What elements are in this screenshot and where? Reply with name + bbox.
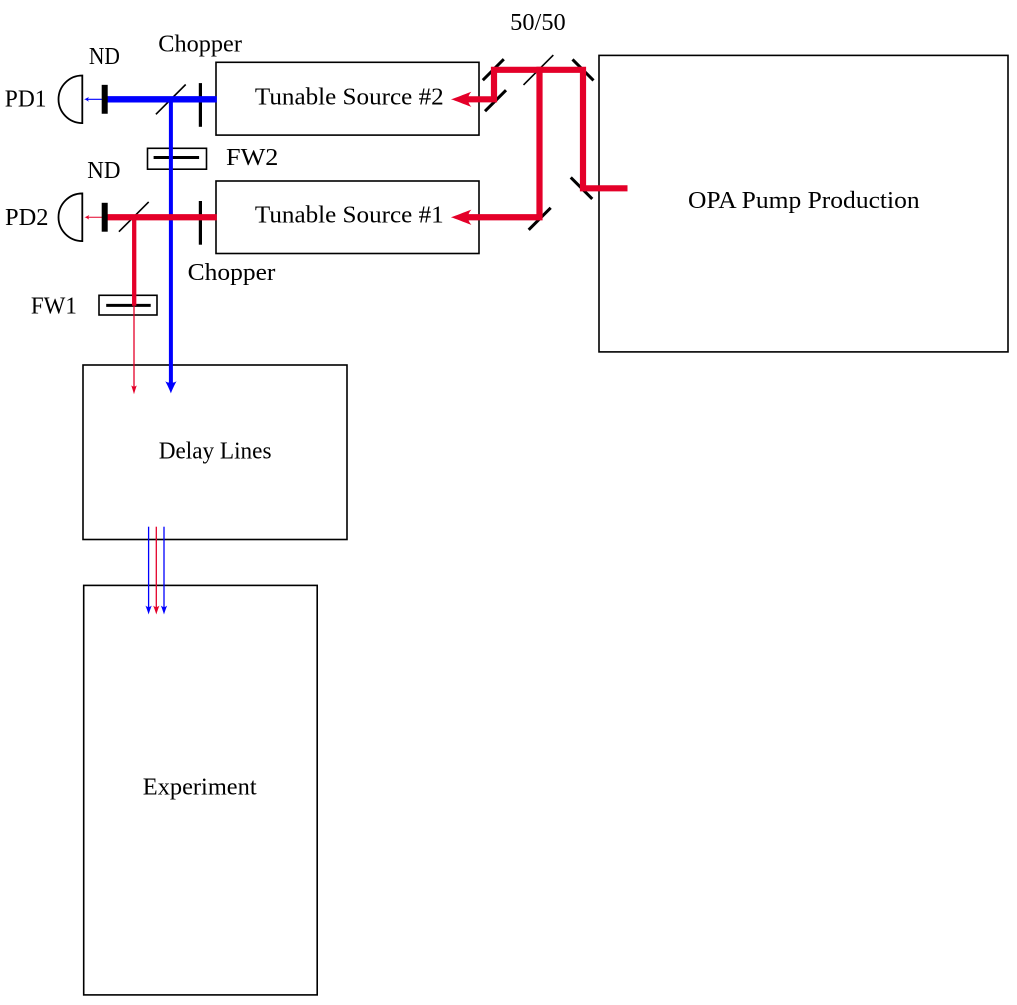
mirror M1 (top left, into beam down) (483, 59, 504, 80)
svg-text:Chopper: Chopper (158, 32, 242, 58)
thin blue line Delay->Experiment (right) (161, 527, 167, 615)
red arrowhead into Tunable Source #1 (451, 210, 472, 225)
mirror M2 (into Tunable Source #2) (485, 90, 506, 111)
blue arrowhead into Delay Lines (165, 381, 176, 393)
ND filter (bottom) (102, 203, 108, 232)
chopper wheel (bottom) (199, 201, 202, 245)
blue beam vertical (to Delay Lines) (169, 99, 173, 388)
red arrowhead into Tunable Source #2 (451, 92, 472, 107)
svg-text:Chopper: Chopper (188, 260, 276, 286)
red beam from OPA via mirrors (polyline) (467, 70, 628, 189)
svg-text:50/50: 50/50 (510, 10, 566, 36)
svg-text:ND: ND (87, 158, 120, 184)
filter wheel FW1 (99, 295, 157, 315)
thin red line below FW1 (133, 306, 135, 387)
photodiode PD1 (59, 76, 83, 124)
thin blue arrow into PD1 (84, 97, 105, 102)
beamsplitter (red arm) (119, 202, 149, 232)
mirror M3 (top right) (573, 59, 594, 80)
mirror M5 (into Tunable Source #1) (529, 208, 551, 230)
svg-text:Delay Lines: Delay Lines (159, 438, 272, 464)
mirror M4 (at OPA output) (571, 177, 593, 199)
red beam 50/50 branch to Tunable Source #1 (467, 67, 540, 218)
ND filter (top) (102, 85, 108, 114)
red beam vertical (to FW1) (132, 217, 136, 306)
svg-text:ND: ND (89, 44, 120, 70)
svg-text:Tunable Source #1: Tunable Source #1 (255, 203, 444, 229)
thin red arrow into PD2 (84, 215, 105, 220)
box Tunable Source #2 (216, 62, 479, 135)
svg-text:PD1: PD1 (5, 87, 47, 113)
svg-text:OPA Pump Production: OPA Pump Production (688, 188, 920, 214)
svg-text:Experiment: Experiment (143, 775, 257, 801)
thin red arrowhead into Delay Lines (131, 385, 137, 394)
svg-text:PD2: PD2 (5, 205, 49, 231)
red beam (Tunable Source #1 to ND) (105, 214, 217, 220)
box Tunable Source #1 (216, 181, 479, 254)
svg-text:FW2: FW2 (226, 145, 278, 171)
svg-text:FW1: FW1 (31, 294, 77, 320)
box OPA Pump Production (599, 55, 1008, 352)
thin blue line Delay->Experiment (left) (145, 527, 151, 615)
beamsplitter 50/50 (524, 55, 554, 85)
box Experiment (84, 585, 318, 995)
beamsplitter (blue arm) (156, 85, 186, 115)
svg-text:Tunable Source #2: Tunable Source #2 (255, 84, 444, 110)
thin red line Delay->Experiment (middle) (153, 527, 159, 615)
blue beam (Tunable Source #2 to ND) (105, 96, 217, 102)
chopper wheel (top) (199, 83, 202, 127)
box Delay Lines (83, 365, 347, 540)
photodiode PD2 (59, 193, 83, 241)
filter wheel FW2 (148, 148, 207, 169)
